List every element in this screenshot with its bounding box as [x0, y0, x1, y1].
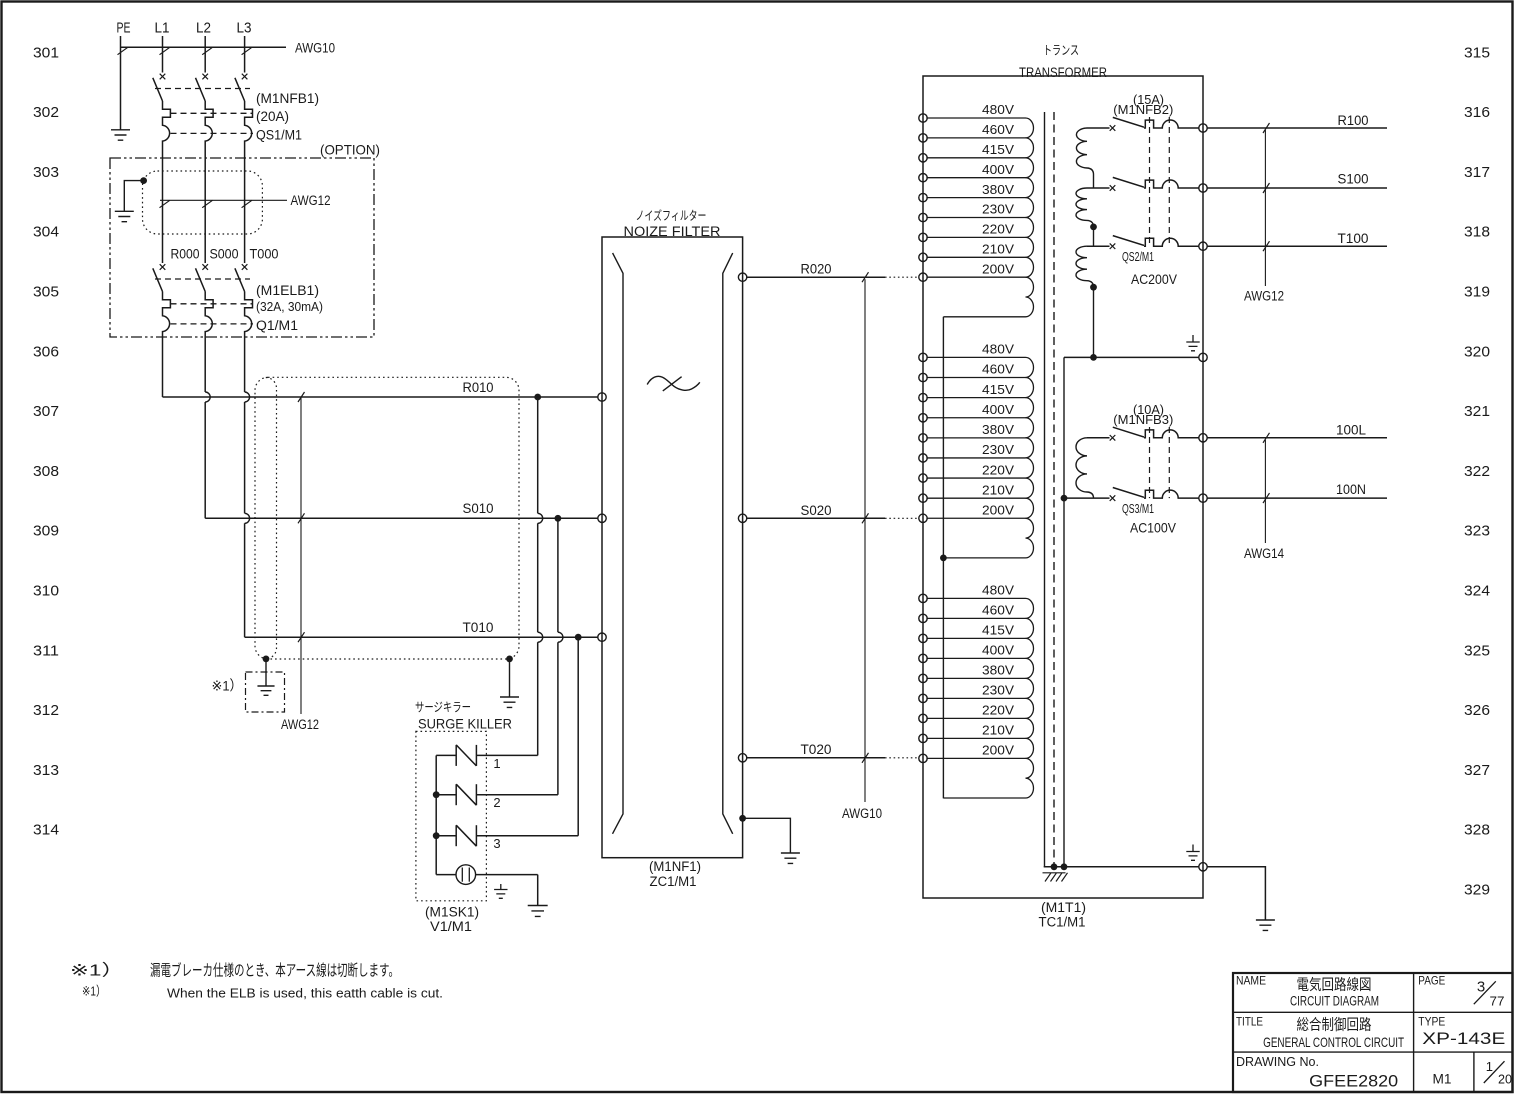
svg-text:※1）: ※1） [212, 678, 243, 694]
svg-text:S010: S010 [463, 501, 494, 516]
svg-text:210V: 210V [982, 724, 1015, 738]
svg-text:325: 325 [1464, 642, 1490, 659]
svg-text:480V: 480V [982, 343, 1015, 357]
svg-text:(20A): (20A) [256, 109, 289, 124]
svg-text:1: 1 [1486, 1059, 1493, 1074]
svg-text:321: 321 [1464, 403, 1490, 420]
svg-text:310: 310 [33, 583, 59, 600]
svg-text:304: 304 [33, 224, 59, 241]
svg-text:307: 307 [33, 403, 59, 420]
svg-text:(OPTION): (OPTION) [320, 141, 380, 157]
svg-text:S100: S100 [1338, 171, 1369, 186]
svg-text:303: 303 [33, 164, 59, 181]
svg-text:L1: L1 [155, 20, 170, 36]
svg-text:1: 1 [493, 756, 500, 771]
svg-text:318: 318 [1464, 224, 1490, 241]
svg-text:M1: M1 [1433, 1071, 1452, 1087]
svg-text:305: 305 [33, 284, 59, 301]
svg-text:TITLE: TITLE [1236, 1014, 1263, 1028]
svg-text:100L: 100L [1336, 423, 1366, 438]
svg-text:415V: 415V [982, 383, 1015, 397]
svg-text:CIRCUIT DIAGRAM: CIRCUIT DIAGRAM [1290, 993, 1379, 1008]
svg-text:TC1/M1: TC1/M1 [1039, 914, 1086, 929]
svg-text:T000: T000 [250, 246, 279, 261]
svg-text:T020: T020 [801, 742, 832, 757]
svg-text:220V: 220V [982, 704, 1015, 718]
svg-text:AC200V: AC200V [1131, 271, 1178, 287]
svg-text:400V: 400V [982, 163, 1015, 177]
svg-text:GFEE2820: GFEE2820 [1309, 1071, 1398, 1090]
svg-text:GENERAL CONTROL CIRCUIT: GENERAL CONTROL CIRCUIT [1263, 1034, 1404, 1050]
svg-text:200V: 200V [982, 262, 1015, 276]
svg-text:460V: 460V [982, 604, 1015, 618]
svg-text:400V: 400V [982, 403, 1015, 417]
svg-text:323: 323 [1464, 523, 1490, 540]
svg-text:漏電ブレーカ仕様のとき、本アース線は切断します。: 漏電ブレーカ仕様のとき、本アース線は切断します。 [150, 961, 399, 980]
svg-text:T100: T100 [1338, 231, 1369, 246]
svg-text:AWG14: AWG14 [1244, 546, 1284, 561]
svg-text:329: 329 [1464, 882, 1490, 899]
svg-text:(M1NFB3): (M1NFB3) [1113, 412, 1173, 427]
svg-text:320: 320 [1464, 343, 1490, 360]
svg-text:327: 327 [1464, 762, 1490, 779]
svg-text:480V: 480V [982, 103, 1015, 117]
svg-text:20: 20 [1498, 1072, 1512, 1087]
svg-text:460V: 460V [982, 123, 1015, 137]
svg-text:AWG12: AWG12 [1244, 288, 1284, 303]
svg-text:306: 306 [33, 343, 59, 360]
svg-text:R010: R010 [463, 380, 494, 395]
svg-text:XP-143E: XP-143E [1422, 1029, 1505, 1048]
svg-text:S020: S020 [801, 503, 832, 518]
svg-text:311: 311 [33, 642, 59, 659]
svg-text:309: 309 [33, 523, 59, 540]
svg-text:(M1NFB1): (M1NFB1) [256, 90, 319, 106]
svg-text:R100: R100 [1338, 113, 1369, 128]
svg-text:328: 328 [1464, 822, 1490, 839]
svg-text:326: 326 [1464, 702, 1490, 719]
svg-text:314: 314 [33, 822, 59, 839]
svg-text:(32A, 30mA): (32A, 30mA) [256, 299, 323, 314]
svg-text:(M1SK1): (M1SK1) [425, 905, 479, 920]
svg-text:TYPE: TYPE [1418, 1014, 1445, 1028]
svg-text:QS2/M1: QS2/M1 [1122, 250, 1154, 264]
svg-text:(M1T1): (M1T1) [1041, 900, 1086, 915]
svg-text:230V: 230V [982, 443, 1015, 457]
svg-text:380V: 380V [982, 664, 1015, 678]
svg-text:312: 312 [33, 702, 59, 719]
svg-text:ZC1/M1: ZC1/M1 [650, 874, 697, 889]
svg-text:460V: 460V [982, 363, 1015, 377]
svg-text:415V: 415V [982, 624, 1015, 638]
svg-text:When the ELB is used, this eat: When the ELB is used, this eatth cable i… [167, 986, 443, 1000]
svg-text:380V: 380V [982, 183, 1015, 197]
svg-text:QS1/M1: QS1/M1 [256, 128, 302, 143]
svg-text:415V: 415V [982, 143, 1015, 157]
svg-text:QS3/M1: QS3/M1 [1122, 502, 1154, 516]
svg-text:トランス: トランス [1043, 43, 1079, 57]
svg-text:322: 322 [1464, 463, 1490, 480]
svg-text:AC100V: AC100V [1130, 520, 1177, 536]
svg-text:総合制御回路: 総合制御回路 [1297, 1016, 1372, 1033]
svg-text:電気回路線図: 電気回路線図 [1297, 976, 1372, 993]
svg-text:100N: 100N [1336, 482, 1366, 497]
svg-text:315: 315 [1464, 44, 1490, 61]
svg-text:301: 301 [33, 44, 59, 61]
svg-text:2: 2 [493, 795, 500, 810]
svg-text:302: 302 [33, 104, 59, 121]
svg-text:230V: 230V [982, 203, 1015, 217]
svg-text:※1）: ※1） [82, 984, 106, 999]
svg-text:210V: 210V [982, 483, 1015, 497]
svg-text:L2: L2 [196, 20, 211, 36]
svg-text:317: 317 [1464, 164, 1490, 181]
svg-text:210V: 210V [982, 243, 1015, 257]
svg-text:AWG10: AWG10 [842, 806, 882, 821]
svg-text:S000: S000 [210, 246, 239, 261]
svg-text:380V: 380V [982, 423, 1015, 437]
svg-text:AWG12: AWG12 [281, 717, 319, 732]
svg-text:324: 324 [1464, 583, 1490, 600]
svg-text:77: 77 [1490, 994, 1505, 1009]
svg-text:TRANSFORMER: TRANSFORMER [1019, 65, 1107, 80]
svg-text:480V: 480V [982, 584, 1015, 598]
svg-text:Q1/M1: Q1/M1 [256, 318, 298, 333]
svg-text:PAGE: PAGE [1418, 973, 1445, 987]
svg-text:PE: PE [117, 20, 131, 36]
svg-text:308: 308 [33, 463, 59, 480]
svg-text:(M1NFB2): (M1NFB2) [1113, 102, 1173, 117]
svg-text:AWG12: AWG12 [291, 193, 331, 208]
svg-text:(M1NF1): (M1NF1) [649, 859, 701, 874]
svg-text:319: 319 [1464, 284, 1490, 301]
svg-text:400V: 400V [982, 644, 1015, 658]
svg-text:SURGE KILLER: SURGE KILLER [418, 716, 512, 731]
svg-text:230V: 230V [982, 684, 1015, 698]
svg-text:200V: 200V [982, 504, 1015, 518]
svg-text:R020: R020 [801, 262, 832, 277]
svg-text:(M1ELB1): (M1ELB1) [256, 282, 319, 298]
svg-text:DRAWING No.: DRAWING No. [1236, 1055, 1319, 1069]
svg-text:200V: 200V [982, 744, 1015, 758]
svg-text:AWG10: AWG10 [295, 40, 335, 55]
svg-text:220V: 220V [982, 463, 1015, 477]
svg-text:ノイズフィルター: ノイズフィルター [636, 208, 707, 223]
svg-text:316: 316 [1464, 104, 1490, 121]
svg-text:L3: L3 [237, 20, 252, 36]
svg-text:サージキラー: サージキラー [415, 700, 471, 714]
svg-text:※1）: ※1） [70, 962, 124, 980]
svg-text:R000: R000 [171, 246, 200, 261]
svg-text:313: 313 [33, 762, 59, 779]
svg-text:220V: 220V [982, 223, 1015, 237]
svg-text:NAME: NAME [1236, 973, 1266, 987]
svg-text:T010: T010 [463, 620, 494, 635]
svg-text:3: 3 [493, 836, 500, 851]
svg-text:V1/M1: V1/M1 [430, 919, 472, 934]
